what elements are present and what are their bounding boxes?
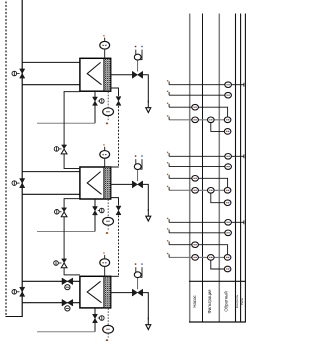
group 3 rung 2	[169, 232, 225, 234]
group 1 rung 3 with elbow	[169, 107, 228, 117]
drain valve V3.2 below W3	[94, 308, 96, 332]
heat exchanger W2 hatched plate column	[104, 168, 110, 199]
pressure sensor P1 (oval) below plate column	[107, 92, 109, 108]
group 2 drop link	[211, 193, 225, 203]
supply pipe valve V3.1	[20, 287, 25, 296]
group 1 terminal X1.1	[225, 82, 232, 88]
group 1 terminals X1.4 X1.5 X1.6	[192, 117, 199, 123]
group 2 rung 3 with elbow	[169, 178, 228, 187]
temperature sensor T3 above exchanger	[104, 255, 106, 258]
drain arrow D2	[147, 209, 149, 216]
supply valve V1.1 sensor circle	[17, 73, 20, 75]
supply pipe valve V2.1	[20, 179, 25, 188]
heat exchanger W1 chevron flow path	[87, 62, 101, 84]
group 2 terminal X2.3	[192, 176, 199, 182]
svg-text:Реле: Реле	[240, 298, 244, 305]
group 3 drop link	[211, 260, 225, 269]
transfer line with valve V1.3 to next exchanger	[111, 88, 119, 96]
group 1 rung 2	[169, 94, 225, 96]
heat exchanger W2 chevron flow path	[87, 172, 101, 195]
cascade pipe from W2 bottom to W3 inlet	[64, 199, 80, 275]
sensor P1 tag	[106, 123, 108, 125]
inlet shelf into W3 from previous stage	[111, 275, 119, 277]
drain line after Y2	[143, 184, 149, 211]
supply pipe (solid vertical)	[21, 0, 23, 317]
sensor P2 tag	[106, 232, 108, 234]
drain arrow D3	[147, 318, 149, 325]
wiring bus at x=202.5	[202, 14, 204, 323]
wiring bus at x=219.3	[218, 14, 220, 323]
control valve Y1 actuator	[137, 60, 139, 72]
heat exchanger W1 hatched plate column	[104, 59, 110, 91]
drain valve V2.2 below W2	[94, 199, 96, 232]
cascade valve V6 sensor	[58, 262, 61, 264]
pressure sensor P3 (oval) below plate column	[107, 308, 109, 325]
group 3 terminal X3.3	[192, 242, 199, 248]
heat exchanger W3 hatched plate column	[104, 277, 110, 307]
sensor T1 stem to exchanger	[104, 50, 106, 59]
sensor T3 stem to exchanger	[104, 267, 106, 276]
heat exchanger W3 chevron flow path	[87, 281, 101, 302]
heat exchanger W2 return duct lower line	[22, 193, 101, 195]
motor valve M2 on W3 return duct	[62, 299, 73, 306]
group 2 terminal X2.7	[224, 200, 231, 206]
temperature sensor T1 above exchanger	[104, 38, 106, 41]
group 1 terminal X1.3	[192, 104, 199, 110]
group 2 terminal X2.2	[225, 164, 232, 170]
secondary outlet line from W1	[111, 74, 133, 76]
impulse line from valve V3.2	[37, 331, 95, 333]
group 3 terminal X3.1	[225, 220, 232, 226]
cascade pipe from W1 bottom to W2 inlet	[64, 92, 80, 169]
control valve Y3 actuator	[137, 278, 139, 290]
temperature sensor T2 above exchanger	[104, 147, 106, 150]
wiring bus at x=235.5	[235, 14, 237, 323]
group 2 rung 1	[169, 155, 225, 157]
transfer line with valve V2.3 to next exchanger	[111, 198, 119, 206]
cascade valve V6	[62, 259, 67, 263]
svg-text:Обратный: Обратный	[223, 291, 228, 312]
control valve Y2 actuator	[137, 170, 139, 182]
return pipe (dashed vertical)	[5, 2, 7, 317]
group 3 terminal X3.2	[225, 230, 232, 236]
svg-text:Контроль: Контроль	[235, 294, 239, 308]
cascade valve V5 sensor	[59, 211, 62, 213]
drain valve V1.2 below W1	[94, 91, 96, 123]
heat exchanger W2 body	[80, 167, 111, 199]
control valve Y2 body	[132, 181, 142, 188]
group 3 rung 4	[169, 256, 231, 258]
group 1 terminal X1.2	[225, 92, 232, 98]
group 1 rung 1	[169, 84, 225, 86]
control valve Y3 body	[132, 289, 142, 296]
pipe bottom connector	[5, 316, 22, 318]
svg-text:Насос: Насос	[192, 295, 197, 308]
cascade valve V4	[62, 145, 67, 149]
supply valve V2.1 sensor circle	[17, 182, 20, 184]
inlet shelf into W2 from previous stage	[111, 166, 119, 168]
sensor T2 stem to exchanger	[104, 159, 106, 167]
cascade valve V5	[62, 208, 67, 212]
group 3 terminal X3.7	[224, 266, 231, 272]
drain line after Y3	[143, 293, 149, 320]
terminal table frame	[189, 280, 246, 282]
heat exchanger W1 return duct lower line	[22, 84, 101, 86]
group 3 rung 3 with elbow	[169, 245, 228, 255]
svg-text:Фильтрация: Фильтрация	[207, 289, 212, 314]
group 2 terminals X2.4 X2.5 X2.6	[192, 188, 199, 194]
group 1 terminal X1.7	[224, 129, 231, 135]
wiring bus at x=189.7	[189, 14, 191, 323]
secondary outlet line from W3	[111, 292, 133, 294]
drain valve V3.2 sensor	[98, 317, 100, 319]
control valve Y1 body	[132, 71, 142, 78]
control valve Y2 actuator leads	[135, 159, 137, 164]
group 1 rung 4	[169, 119, 231, 121]
wiring bus at x=240.6	[240, 14, 242, 323]
control valve Y1 actuator leads	[135, 50, 137, 55]
group 3 terminals X3.4 X3.5 X3.6	[192, 255, 199, 261]
wiring bus at x=245.4	[244, 14, 246, 323]
heat exchanger W3 supply duct upper line	[22, 280, 100, 282]
secondary outlet line from W2	[111, 183, 133, 185]
drain valve V1.2 sensor	[98, 100, 100, 102]
drain arrow D1	[147, 101, 149, 108]
group 3 rung 1	[169, 221, 225, 223]
impulse line from valve V1.2	[37, 122, 95, 124]
group 2 terminal X2.1	[225, 154, 232, 160]
cascade valve V4 sensor	[59, 148, 62, 150]
heat exchanger W2 supply duct upper line	[22, 171, 100, 173]
heat exchanger W1 supply duct upper line	[22, 61, 100, 63]
heat exchanger W3 return duct lower line	[22, 302, 101, 304]
heat exchanger W1 body	[80, 58, 111, 91]
motor valve M1 on W3 supply duct	[62, 278, 73, 285]
supply valve V3.1 sensor circle	[17, 291, 20, 293]
control valve Y3 actuator leads	[135, 267, 137, 272]
group 2 rung 4	[169, 189, 231, 191]
pressure sensor P2 (oval) below plate column	[107, 199, 109, 217]
impulse line from valve V2.2	[37, 231, 95, 233]
sensor P3 tag	[106, 339, 108, 341]
group 1 drop link	[211, 123, 225, 132]
group 2 rung 2	[169, 166, 225, 168]
heat exchanger W3 body	[80, 276, 111, 308]
drain line after Y1	[143, 75, 149, 103]
supply pipe valve V1.1	[20, 69, 25, 78]
drain valve V2.2 sensor	[98, 210, 100, 212]
